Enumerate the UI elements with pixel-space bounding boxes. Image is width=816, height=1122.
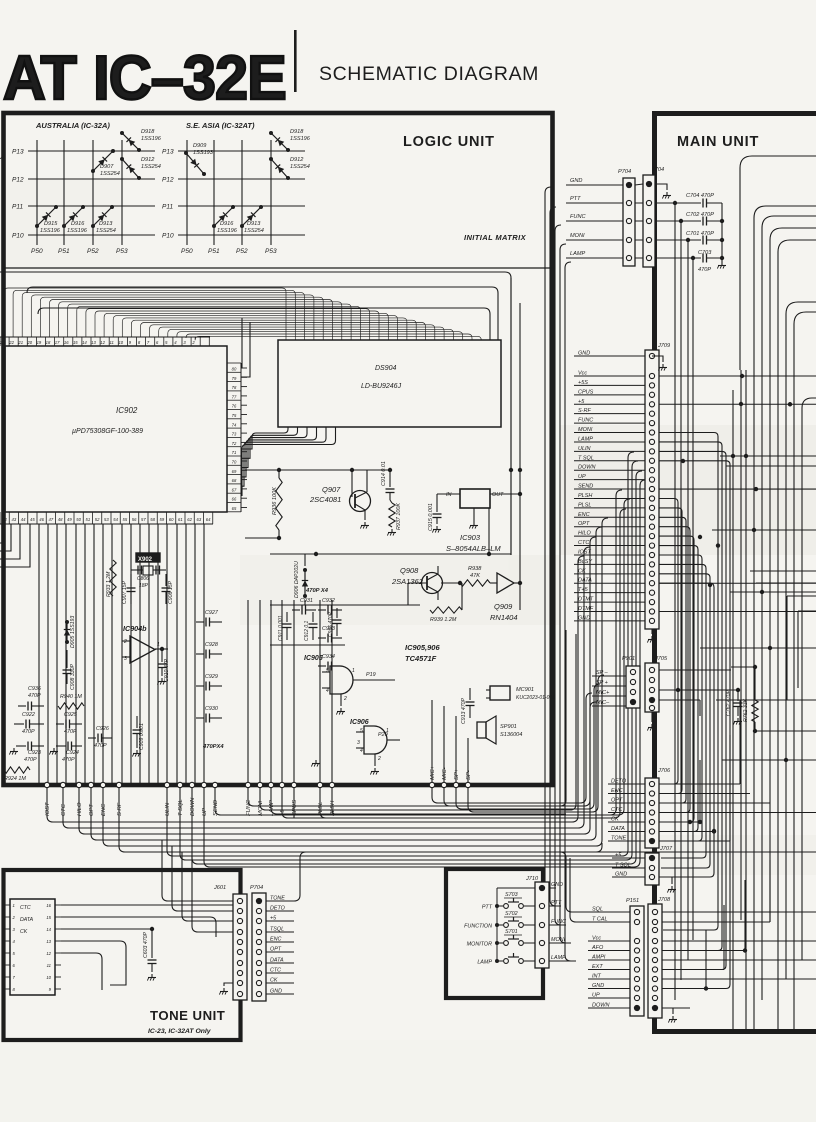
initial matrix divider — [4, 267, 553, 269]
svg-text:R933 1.2M: R933 1.2M — [106, 571, 112, 597]
microphone MC901 — [486, 686, 555, 701]
svg-text:R938: R938 — [468, 566, 482, 572]
connector P704 (main) — [618, 169, 635, 266]
svg-text:MAIN UNIT: MAIN UNIT — [677, 134, 759, 150]
svg-text:ENC: ENC — [611, 788, 623, 794]
svg-text:58: 58 — [150, 517, 155, 522]
crystal X902 — [131, 553, 166, 589]
wire LAMP corridor — [549, 262, 571, 961]
svg-text:C603 470P: C603 470P — [143, 932, 149, 958]
wire bundle analog outputs — [248, 600, 332, 785]
resistor R939 — [430, 583, 462, 623]
svg-text:ENC: ENC — [101, 803, 107, 816]
wire SQL feeder — [560, 852, 588, 912]
switch box output labels — [549, 882, 576, 961]
svg-text:P52: P52 — [236, 248, 248, 255]
wire pin67 net — [245, 468, 390, 472]
bus vertical to pin 79 — [241, 322, 250, 377]
svg-text:PLSL: PLSL — [578, 502, 591, 508]
connector J708 — [648, 897, 671, 1018]
svg-text:T+5: T+5 — [578, 587, 589, 593]
svg-text:60: 60 — [169, 517, 174, 522]
svg-text:SP +: SP + — [596, 680, 609, 686]
svg-text:FUNC: FUNC — [578, 418, 593, 424]
diode D912 (SE Asia) — [269, 157, 310, 180]
svg-text:71: 71 — [232, 450, 237, 455]
wire pin66 net — [245, 536, 281, 540]
svg-text:AT: AT — [3, 43, 77, 112]
svg-text:S.E. ASIA (IC-32AT): S.E. ASIA (IC-32AT) — [186, 121, 255, 130]
svg-text:C930: C930 — [205, 706, 218, 712]
svg-text:11: 11 — [47, 963, 51, 968]
svg-text:47: 47 — [49, 517, 54, 522]
capacitor C603 — [143, 929, 157, 972]
resistor R938 — [458, 566, 490, 586]
svg-text:OPT: OPT — [270, 947, 282, 953]
capacitor C934 — [318, 654, 342, 671]
svg-text:IC903: IC903 — [460, 533, 481, 542]
resistor R762 — [743, 667, 758, 733]
svg-text:FUNC: FUNC — [551, 919, 566, 925]
svg-text:CK: CK — [20, 929, 28, 935]
svg-text:51: 51 — [86, 517, 91, 522]
capacitor C913 — [461, 688, 475, 724]
wire right bus 1 — [740, 156, 816, 370]
svg-text:49: 49 — [67, 517, 72, 522]
svg-text:LAMP: LAMP — [551, 955, 566, 961]
svg-text:LAMP: LAMP — [477, 960, 492, 966]
main connector input labels — [566, 178, 623, 258]
svg-text:P20: P20 — [378, 732, 388, 738]
capacitor C923 — [16, 742, 44, 764]
resistor R937 — [389, 500, 402, 530]
svg-text:17: 17 — [55, 340, 60, 345]
svg-text:MIC-: MIC- — [442, 767, 448, 780]
svg-text:D913: D913 — [99, 221, 113, 227]
svg-text:SP –: SP – — [596, 670, 609, 676]
svg-text:CK: CK — [611, 817, 619, 823]
TONE UNIT border — [4, 870, 241, 1040]
svg-text:D906 DAP202U: D906 DAP202U — [294, 561, 300, 598]
resistor R936 — [272, 470, 282, 538]
wire mid horizontal 0c — [787, 596, 816, 700]
svg-text:P19: P19 — [366, 672, 376, 678]
connector P704 (tone) — [250, 885, 266, 1001]
ground (C923) — [9, 748, 18, 755]
ground (J705) — [647, 712, 656, 731]
svg-text:DETO: DETO — [270, 906, 286, 912]
resistor R940 — [58, 694, 84, 709]
transistor Q908 — [391, 566, 460, 600]
svg-text:S702: S702 — [505, 911, 518, 917]
svg-text:SP901: SP901 — [500, 724, 517, 730]
svg-text:D905 1SS193: D905 1SS193 — [70, 616, 76, 648]
svg-text:C926: C926 — [96, 726, 109, 732]
svg-text:KUC2023-01-006: KUC2023-01-006 — [516, 695, 555, 701]
svg-text:2: 2 — [377, 756, 381, 762]
svg-text:SP+: SP+ — [454, 768, 460, 780]
svg-text:C762 470P: C762 470P — [726, 690, 732, 716]
diode D905 — [64, 616, 76, 648]
wire right bus 4 — [770, 228, 816, 600]
svg-text:S703: S703 — [505, 892, 518, 898]
svg-text:2: 2 — [123, 639, 127, 645]
svg-text:DETO: DETO — [611, 779, 627, 785]
wire right vertical 4 — [769, 600, 771, 922]
svg-text:DTMT: DTMT — [578, 597, 594, 603]
svg-text:IC904b: IC904b — [123, 624, 147, 633]
wire mid horizontal 7 — [722, 759, 816, 761]
tone connector labels — [266, 896, 294, 995]
svg-text:X902: X902 — [138, 557, 153, 563]
svg-text:T SQL: T SQL — [578, 455, 594, 461]
svg-text:+5: +5 — [270, 916, 277, 922]
svg-text:C923: C923 — [28, 750, 41, 756]
svg-text:4: 4 — [360, 748, 363, 754]
ground (Q907 emitter) — [360, 522, 369, 529]
svg-text:CTC: CTC — [578, 540, 589, 546]
diode D915 — [35, 205, 61, 234]
svg-text:LOGIC UNIT: LOGIC UNIT — [403, 134, 495, 150]
wire right bus 8 — [802, 398, 816, 860]
svg-text:66: 66 — [232, 497, 237, 502]
svg-text:DTMF: DTMF — [578, 606, 594, 612]
capacitor C926 — [88, 726, 112, 749]
J709 input labels — [574, 351, 645, 622]
svg-text:P51: P51 — [58, 248, 70, 255]
svg-text:C925: C925 — [64, 712, 78, 718]
wire cap vertical 3 — [687, 240, 689, 960]
capacitor C914 — [381, 461, 395, 500]
svg-text:2SC4081: 2SC4081 — [309, 495, 341, 504]
svg-text:C927: C927 — [205, 610, 219, 616]
J706 input labels — [608, 779, 645, 842]
svg-text:DATA: DATA — [20, 917, 34, 923]
svg-text:INITIAL MATRIX: INITIAL MATRIX — [464, 233, 527, 242]
connector J705 — [645, 656, 668, 712]
wire mid horizontal 6 — [716, 699, 816, 701]
wire tone feed 3 — [182, 852, 233, 921]
svg-text:GND: GND — [578, 351, 590, 357]
svg-text:74: 74 — [232, 422, 237, 427]
svg-text:IOST: IOST — [45, 802, 51, 816]
svg-text:55: 55 — [123, 517, 128, 522]
svg-text:PTT: PTT — [551, 900, 562, 906]
wire mid horizontal 4 — [730, 591, 816, 593]
svg-text:13: 13 — [91, 340, 96, 345]
svg-text:DATA: DATA — [270, 958, 284, 964]
svg-text:DOWN: DOWN — [578, 465, 595, 471]
svg-text:S136004: S136004 — [500, 732, 522, 738]
svg-text:CTC: CTC — [270, 968, 281, 974]
svg-text:MC901: MC901 — [516, 687, 534, 693]
svg-text:J705: J705 — [654, 656, 668, 662]
value label 470P X4 — [305, 588, 329, 594]
svg-text:AUSTRALIA (IC-32A): AUSTRALIA (IC-32A) — [35, 121, 110, 130]
svg-text:1SS254: 1SS254 — [244, 228, 264, 234]
svg-text:P704: P704 — [250, 885, 263, 891]
svg-text:DOWN: DOWN — [592, 1003, 609, 1009]
svg-text:P50: P50 — [31, 248, 43, 255]
svg-text:PTT: PTT — [570, 196, 581, 202]
wire MONI run — [260, 634, 576, 810]
wire CTC run — [63, 547, 590, 828]
svg-text:FUNC: FUNC — [246, 799, 252, 816]
diode D918 (SE Asia) — [269, 129, 311, 152]
wire PLSL run — [320, 509, 626, 818]
wire tone feed 1 — [162, 840, 233, 901]
svg-text:53: 53 — [104, 517, 109, 522]
ground (IC906) — [370, 768, 379, 775]
svg-text:UP: UP — [202, 808, 208, 816]
value label 470PX4 — [202, 744, 224, 750]
wire right vertical 6 — [785, 700, 787, 979]
svg-text:C931: C931 — [300, 598, 313, 604]
svg-text:Q908: Q908 — [400, 566, 419, 575]
svg-text:P12: P12 — [162, 177, 174, 184]
svg-text:C935 470P: C935 470P — [328, 611, 334, 637]
capacitor C702 — [657, 212, 722, 226]
J707 input labels — [612, 853, 645, 878]
svg-text:63: 63 — [197, 517, 202, 522]
svg-text:GND: GND — [615, 872, 627, 878]
wire cap vertical 4 — [692, 258, 694, 940]
bus wire outer — [0, 272, 511, 555]
gate IC906 — [350, 719, 400, 766]
svg-text:5: 5 — [326, 668, 329, 674]
connector J710 — [525, 876, 549, 968]
svg-text:2SA1362: 2SA1362 — [391, 577, 424, 586]
svg-text:C913 470P: C913 470P — [461, 698, 467, 724]
bus wires IC902 to DS904 — [4, 288, 481, 340]
svg-text:ENC: ENC — [578, 512, 590, 518]
title divider — [294, 30, 297, 92]
svg-text:D916: D916 — [71, 221, 85, 227]
svg-text:OPT: OPT — [578, 521, 590, 527]
P151 input labels — [588, 907, 630, 1009]
wire HILO run — [79, 537, 596, 834]
tone encoder IC601 — [4, 899, 61, 995]
svg-text:1SS254: 1SS254 — [141, 164, 161, 170]
svg-text:CK: CK — [270, 978, 278, 984]
wire right vertical 7 — [793, 760, 795, 1031]
svg-text:73: 73 — [232, 432, 237, 437]
bus vertical wire A — [509, 278, 513, 555]
svg-text:IC-23, IC-32AT Only: IC-23, IC-32AT Only — [148, 1028, 212, 1035]
svg-text:SEND: SEND — [578, 484, 593, 490]
wire right vertical 5 — [777, 650, 779, 1031]
ground (J708) — [662, 1008, 677, 1023]
svg-text:C907 15P: C907 15P — [122, 580, 128, 604]
wire switch common — [497, 888, 535, 961]
op-amp IC904b — [122, 624, 168, 663]
op-amp U1 microprocessor IC902 — [0, 337, 247, 524]
svg-text:SQL: SQL — [592, 907, 603, 913]
svg-text:R936 100K: R936 100K — [272, 487, 278, 515]
wire DOWN run — [192, 471, 642, 864]
switch S701 — [467, 929, 535, 948]
svg-text:14: 14 — [46, 927, 51, 932]
svg-text:µPD75308GF-100-389: µPD75308GF-100-389 — [72, 428, 143, 435]
svg-text:FUNCTION: FUNCTION — [464, 924, 492, 930]
wire cap row net — [270, 644, 345, 646]
svg-text:Q909: Q909 — [494, 602, 513, 611]
display driver DS904 — [278, 340, 501, 427]
svg-text:GND: GND — [570, 178, 582, 184]
capacitor C915 — [428, 494, 442, 531]
svg-text:P12: P12 — [12, 177, 24, 184]
capacitor C924 — [56, 742, 82, 764]
svg-text:C701 470P: C701 470P — [686, 231, 714, 237]
svg-text:12: 12 — [46, 951, 51, 956]
ground (J601) — [219, 983, 233, 995]
svg-text:48: 48 — [58, 517, 63, 522]
svg-text:46: 46 — [39, 517, 44, 522]
svg-text:C924: C924 — [66, 750, 79, 756]
svg-text:16: 16 — [46, 903, 51, 908]
wire cap vertical 2 — [680, 221, 682, 980]
svg-text:D918: D918 — [141, 129, 155, 135]
svg-text:470P: 470P — [24, 757, 37, 763]
svg-text:FUNC: FUNC — [570, 214, 586, 220]
svg-text:D909: D909 — [193, 143, 206, 149]
svg-text:1SS254: 1SS254 — [96, 228, 116, 234]
capacitor C912 — [304, 612, 318, 641]
bus vertical to pin 80 — [241, 318, 242, 368]
svg-text:P10: P10 — [12, 233, 24, 240]
wire J708 fanout — [662, 860, 816, 1008]
svg-text:P11: P11 — [162, 204, 173, 211]
svg-text:64: 64 — [206, 517, 211, 522]
svg-text:11: 11 — [110, 340, 114, 345]
svg-text:J709: J709 — [657, 343, 670, 349]
svg-text:72: 72 — [232, 441, 237, 446]
svg-text:1: 1 — [352, 668, 355, 674]
svg-text:P13: P13 — [12, 149, 24, 156]
svg-text:20: 20 — [26, 340, 32, 345]
svg-text:15: 15 — [73, 340, 78, 345]
svg-text:S701: S701 — [505, 929, 518, 935]
wire right vertical 10 — [740, 370, 742, 920]
svg-text:D916: D916 — [220, 221, 234, 227]
svg-text:AMPI: AMPI — [591, 955, 606, 961]
svg-text:59: 59 — [160, 517, 165, 522]
svg-text:67: 67 — [232, 487, 237, 492]
transistor Q909 — [490, 573, 522, 622]
wire right bus 7 — [794, 312, 816, 760]
ground (J709 top) — [652, 356, 667, 371]
wire bundle IC902 port lines — [0, 524, 204, 785]
svg-text:UP: UP — [578, 474, 586, 480]
svg-text:69: 69 — [232, 469, 237, 474]
connector P151 — [626, 898, 644, 1016]
svg-text:C922: C922 — [22, 712, 35, 718]
svg-text:C929: C929 — [205, 674, 218, 680]
wire SP- run — [468, 675, 604, 812]
svg-text:Vcc: Vcc — [578, 371, 587, 377]
svg-text:45: 45 — [30, 517, 35, 522]
svg-text:P52: P52 — [87, 248, 99, 255]
svg-text:C908 330P: C908 330P — [70, 664, 76, 690]
bus wires DS904 bottom to IC902 — [241, 427, 336, 496]
svg-text:18P: 18P — [139, 583, 149, 589]
svg-text:C914 0.01: C914 0.01 — [381, 461, 387, 486]
svg-text:R940 1M: R940 1M — [60, 694, 82, 700]
cut wire label 4 — [0, 156, 4, 162]
svg-text:TONE: TONE — [270, 896, 285, 902]
resistor R933 — [106, 560, 116, 597]
wire logic right net — [270, 508, 511, 556]
wire ULIN run — [167, 452, 634, 856]
svg-text:SP-: SP- — [466, 770, 472, 780]
matrix title AUSTRALIA (IC-32A) — [35, 121, 110, 130]
svg-text:GND: GND — [578, 615, 590, 621]
svg-text:MONI: MONI — [570, 233, 585, 239]
svg-text:D912: D912 — [141, 157, 155, 163]
junction dots — [681, 402, 788, 833]
capacitor C929 — [196, 674, 222, 691]
svg-text:C908 15P: C908 15P — [168, 580, 174, 604]
svg-text:1SS196: 1SS196 — [141, 136, 162, 142]
svg-text:GND: GND — [270, 989, 282, 995]
connector P901 — [622, 656, 640, 708]
wire right vertical 9 — [732, 390, 734, 1031]
wire bundle J709 fanout — [659, 374, 816, 989]
capacitor C909 — [133, 716, 146, 750]
capacitor C907 — [122, 574, 136, 604]
capacitor C703 — [657, 250, 722, 273]
svg-text:16: 16 — [64, 340, 69, 345]
svg-text:CPUS: CPUS — [578, 389, 594, 395]
svg-text:DATA: DATA — [611, 826, 625, 832]
capacitor C910 — [158, 649, 171, 682]
gate IC905 — [304, 655, 395, 706]
svg-text:10: 10 — [118, 340, 123, 345]
svg-text:BuSY: BuSY — [578, 559, 592, 565]
svg-text:S–8054ALB–LM: S–8054ALB–LM — [446, 544, 501, 553]
wire J705 fanout — [659, 665, 757, 716]
svg-text:S·RF: S·RF — [578, 408, 591, 414]
wire ENC run — [103, 518, 608, 846]
svg-text:P13: P13 — [162, 149, 174, 156]
wire MIC- run — [444, 702, 596, 806]
svg-text:2: 2 — [343, 696, 347, 702]
wire PTT corridor — [549, 207, 556, 906]
svg-text:5: 5 — [360, 728, 363, 734]
wire right bus 2 — [754, 206, 816, 452]
svg-text:DS904: DS904 — [375, 365, 397, 372]
svg-text:R924 1M: R924 1M — [4, 776, 26, 782]
connector J704 — [643, 167, 664, 267]
svg-text:CTC: CTC — [61, 803, 67, 816]
capacitor C935 — [328, 608, 342, 637]
svg-text:21: 21 — [17, 340, 23, 345]
svg-text:TONE UNIT: TONE UNIT — [150, 1008, 225, 1023]
svg-text:MIC+: MIC+ — [430, 765, 436, 780]
svg-text:P704: P704 — [618, 169, 631, 175]
wire mid horizontal 2 — [726, 465, 816, 467]
svg-text:C936: C936 — [28, 686, 41, 692]
capacitor C762 — [726, 690, 743, 716]
svg-text:15: 15 — [46, 915, 51, 920]
svg-text:70: 70 — [232, 460, 237, 465]
svg-text:TONE: TONE — [611, 836, 627, 842]
switch S703 — [482, 892, 535, 911]
svg-text:IOST: IOST — [578, 549, 591, 555]
svg-text:C934: C934 — [322, 654, 335, 660]
svg-text:IC902: IC902 — [116, 406, 138, 415]
INITIAL MATRIX label — [464, 233, 527, 242]
